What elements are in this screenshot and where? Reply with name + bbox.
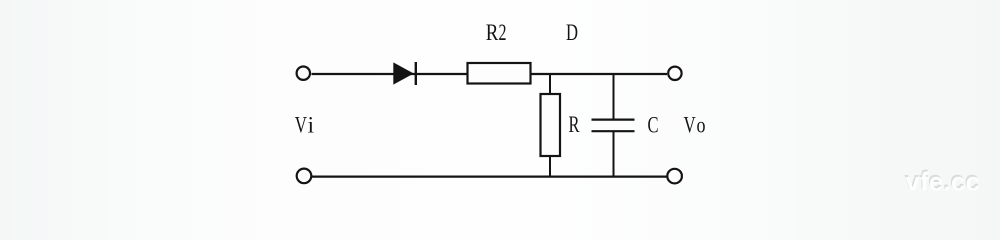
svg-text:i: i	[308, 112, 314, 137]
svg-text:o: o	[697, 112, 706, 137]
svg-text:2: 2	[499, 20, 507, 45]
svg-text:D: D	[566, 20, 578, 45]
svg-text:C: C	[648, 113, 659, 138]
svg-text:R: R	[569, 112, 580, 137]
svg-text:V: V	[295, 112, 307, 137]
svg-text:V: V	[684, 112, 696, 137]
svg-text:vfe.cc: vfe.cc	[905, 167, 980, 197]
svg-text:R: R	[486, 20, 499, 45]
